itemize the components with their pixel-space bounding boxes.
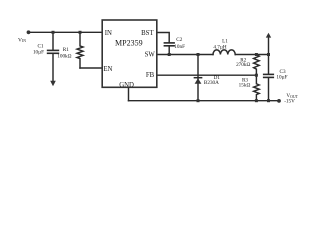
inductor L1 (213, 50, 235, 55)
ground (output rail, up-arrow style) (268, 37, 270, 55)
resistor R3 (254, 75, 260, 101)
node R1 tap (79, 31, 82, 34)
node R2 tap (255, 53, 258, 56)
svg-text:VIN: VIN (18, 37, 26, 43)
capacitor C3 (268, 55, 270, 75)
diode D1 triangle (195, 78, 202, 84)
node C3 bottom junction (267, 99, 270, 102)
svg-text:10µF: 10µF (276, 74, 287, 80)
svg-text:100kΩ: 100kΩ (57, 53, 71, 59)
diode D1 (197, 55, 199, 101)
svg-text:BST: BST (141, 30, 154, 37)
node Vout terminal (277, 99, 281, 103)
IC U1 MP2359 (buck regulator) body (102, 20, 157, 87)
resistor R2 (254, 55, 260, 75)
node C2/SW junction (168, 53, 171, 56)
svg-text:R1: R1 (63, 47, 69, 53)
svg-text:GND: GND (119, 82, 134, 89)
svg-text:EN: EN (103, 66, 112, 73)
svg-text:10µF: 10µF (33, 49, 44, 55)
resistor R1 (77, 32, 83, 68)
wire GND pin drop (128, 87, 130, 100)
svg-text:-15V: -15V (284, 99, 295, 105)
ground arrowhead up at output rail (266, 33, 271, 38)
svg-text:SW: SW (145, 52, 156, 59)
svg-text:15kΩ: 15kΩ (239, 82, 251, 88)
node Vin terminal (27, 30, 31, 34)
node R3 bottom junction (255, 99, 258, 102)
wire EN (80, 67, 102, 69)
wire VOUT-gnd rail (235, 54, 268, 56)
wire FB (157, 74, 257, 76)
svg-text:270kΩ: 270kΩ (236, 62, 250, 68)
wire SW rail (157, 54, 213, 56)
svg-text:C2: C2 (176, 37, 182, 43)
svg-text:FB: FB (146, 72, 155, 79)
node C1 tap (52, 31, 55, 34)
svg-text:B230A: B230A (204, 80, 219, 86)
ground (C1, arrow style) (52, 54, 54, 81)
wire BST (157, 33, 169, 43)
svg-text:IN: IN (105, 30, 112, 37)
svg-text:4.7µH: 4.7µH (213, 44, 226, 50)
capacitor C1 (52, 32, 54, 50)
wire VIN rail (29, 31, 103, 33)
node C3 tap (267, 53, 270, 56)
node FB junction (255, 74, 258, 77)
wire bottom rail (129, 100, 279, 102)
node D1 bottom junction (197, 99, 200, 102)
ground arrowhead of C1 (50, 81, 56, 86)
node D1/SW junction (197, 53, 200, 56)
svg-text:MP2359: MP2359 (115, 39, 143, 48)
svg-text:10nF: 10nF (174, 44, 185, 50)
capacitor C2 (164, 42, 174, 44)
